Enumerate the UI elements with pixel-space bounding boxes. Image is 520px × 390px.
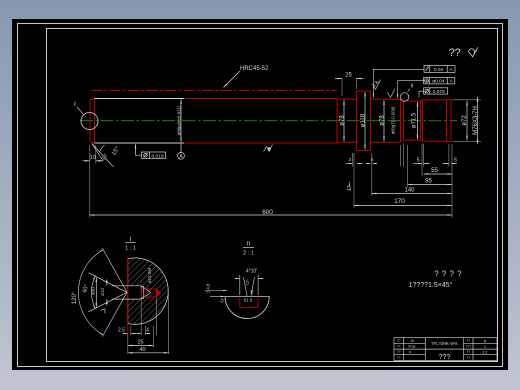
collar phi118 bbox=[356, 91, 358, 151]
right end face bbox=[450, 100, 452, 142]
dimension phi72 bbox=[466, 101, 468, 141]
datum A symbol bbox=[180, 143, 182, 153]
groove red profile bbox=[240, 296, 258, 307]
end face red line bbox=[127, 258, 129, 335]
svg-text:??: ?? bbox=[466, 339, 470, 343]
step at x=337 bbox=[336, 99, 338, 144]
roughness symbol below shaft bbox=[264, 145, 273, 152]
dimension phi118 collar bbox=[364, 92, 366, 150]
dimension extension lines (gray) bbox=[90, 78, 481, 218]
svg-text:170: 170 bbox=[394, 198, 405, 205]
svg-text:ø78: ø78 bbox=[380, 115, 386, 126]
phi71.5 section bbox=[404, 100, 423, 102]
dimension 600 bbox=[90, 214, 452, 216]
tolerance frame 3: 0.079 bbox=[424, 88, 448, 94]
svg-text:??: ?? bbox=[466, 356, 470, 360]
dimension 10 at left end bbox=[83, 160, 103, 162]
detail callout circle I bbox=[81, 113, 98, 130]
detail I lower extension lines bbox=[128, 294, 169, 354]
svg-text:??: ?? bbox=[466, 350, 470, 354]
svg-text:2.5: 2.5 bbox=[118, 328, 125, 334]
svg-text:40: 40 bbox=[139, 347, 145, 353]
svg-text:61.5: 61.5 bbox=[244, 298, 253, 303]
60 degree dimension arc bbox=[91, 276, 95, 310]
svg-text:4°10': 4°10' bbox=[246, 269, 257, 275]
svg-text:5: 5 bbox=[417, 157, 420, 163]
black hole interior cut bbox=[128, 286, 141, 299]
dimension 5 at groove bbox=[413, 163, 430, 165]
svg-text:ø71.5: ø71.5 bbox=[412, 112, 418, 128]
svg-text:?b: ?b bbox=[410, 339, 414, 343]
svg-text:0.04: 0.04 bbox=[434, 67, 444, 73]
inner border frame bbox=[47, 29, 498, 362]
svg-text:II: II bbox=[247, 242, 251, 248]
svg-text:N-av: N-av bbox=[408, 345, 415, 349]
svg-text:??: ?? bbox=[397, 350, 401, 354]
svg-text:140: 140 bbox=[404, 188, 415, 194]
green centerline of shaft axis bbox=[80, 120, 457, 122]
title block small labels bbox=[397, 339, 488, 360]
svg-text:I: I bbox=[74, 101, 76, 108]
svg-text:0.079: 0.079 bbox=[433, 89, 445, 95]
svg-text:1:2: 1:2 bbox=[483, 350, 488, 354]
center hole bore outline bbox=[112, 286, 151, 299]
shaft body edges white left portion bbox=[95, 99, 185, 144]
red dots on centerline bbox=[190, 120, 439, 122]
svg-text:M76X3-7H: M76X3-7H bbox=[473, 106, 479, 135]
thread section bbox=[423, 99, 452, 101]
dimension 55 bbox=[424, 173, 453, 175]
svg-text:25: 25 bbox=[345, 73, 352, 79]
svg-text:???: ??? bbox=[465, 345, 471, 349]
svg-text:25: 25 bbox=[137, 340, 143, 346]
svg-text:600: 600 bbox=[262, 209, 273, 216]
top-right surface finish symbol bbox=[469, 47, 478, 57]
svg-text:1????1.5×45°: 1????1.5×45° bbox=[409, 281, 453, 289]
tolerance frame 2: concentricity phi0.04 A bbox=[424, 78, 455, 84]
svg-text:10: 10 bbox=[90, 155, 96, 161]
small dims near collar bottom bbox=[346, 163, 378, 165]
roughness symbol on phi80g7 section bbox=[388, 89, 396, 98]
svg-text:ø80js6(±0.011): ø80js6(±0.011) bbox=[177, 105, 182, 135]
svg-text:1: 1 bbox=[484, 345, 486, 349]
svg-text:ø118: ø118 bbox=[361, 113, 367, 127]
svg-text:ø30: ø30 bbox=[90, 287, 95, 295]
leader to third frame bbox=[419, 91, 424, 97]
120 degree dimension arc bbox=[78, 250, 103, 336]
svg-text:2.4.8: 2.4.8 bbox=[206, 283, 211, 293]
undercut groove before thread bbox=[420, 101, 422, 140]
dimension 140 bbox=[372, 193, 452, 195]
dimension M76X3-7H bbox=[477, 97, 479, 144]
svg-text:??: ?? bbox=[397, 356, 401, 360]
red hardening dash-dot line above shaft bbox=[91, 90, 337, 92]
groove angle construction bbox=[235, 275, 264, 296]
leader to concentricity frame bbox=[398, 81, 424, 98]
svg-text:ø13: ø13 bbox=[100, 288, 105, 296]
phi78 right section bbox=[371, 98, 401, 100]
dimension phi13 bbox=[106, 280, 108, 306]
svg-text:I: I bbox=[130, 236, 132, 243]
dimension phi78 left bbox=[343, 100, 345, 141]
svg-text:55: 55 bbox=[431, 168, 438, 174]
phi78 left section bbox=[337, 98, 357, 100]
svg-text:?FL?3HK-W%: ?FL?3HK-W% bbox=[431, 341, 458, 346]
svg-text:4: 4 bbox=[146, 328, 149, 334]
cylindricity tolerance frame 0.019 bbox=[136, 144, 166, 158]
svg-text:????: ???? bbox=[434, 270, 465, 279]
svg-text:??: ?? bbox=[397, 345, 401, 349]
shaft body edges red portion bbox=[184, 91, 451, 151]
svg-text:5: 5 bbox=[454, 157, 457, 163]
svg-text:0.019: 0.019 bbox=[151, 153, 163, 159]
dimension 25 bbox=[128, 345, 154, 347]
shaft left end face bbox=[90, 99, 95, 144]
dimension 40 bbox=[128, 352, 169, 354]
15 degree chamfer construction at left end bbox=[92, 144, 114, 168]
dimension 5 at thread end bbox=[442, 163, 457, 165]
svg-text:HRC45-52: HRC45-52 bbox=[240, 66, 269, 72]
groove bbox=[400, 99, 402, 142]
dimension 2.5 bbox=[123, 333, 137, 335]
dimension 4 bbox=[137, 333, 151, 335]
svg-text:1 : 1: 1 : 1 bbox=[125, 246, 136, 252]
svg-text:a: a bbox=[409, 350, 411, 354]
tolerance frame 1: runout 0.04 A bbox=[424, 66, 455, 73]
svg-text:2 : 1: 2 : 1 bbox=[243, 251, 254, 257]
svg-text:ø78: ø78 bbox=[340, 115, 346, 126]
svg-text:II: II bbox=[411, 84, 414, 90]
roughness mark in detail I bbox=[100, 307, 107, 313]
detail callout circle II on undercut bbox=[400, 93, 409, 102]
dimension phi78 right bbox=[383, 100, 385, 141]
left leaders of detail II bbox=[205, 291, 227, 297]
svg-text:120°: 120° bbox=[72, 291, 78, 304]
cone construction fan lines bbox=[78, 248, 127, 337]
roughness symbol below collar bbox=[344, 182, 354, 192]
svg-text:???: ??? bbox=[439, 354, 451, 361]
leader to runout frame bbox=[373, 69, 424, 97]
roughness symbol above shaft left of collar bbox=[373, 80, 381, 90]
dimension phi30 bbox=[95, 278, 97, 308]
detail II boundary arc bbox=[225, 296, 269, 318]
pilot hole red outline bbox=[141, 289, 161, 297]
svg-text:??: ?? bbox=[449, 47, 461, 59]
dimension 170 bbox=[354, 205, 452, 207]
svg-text:ø80g7(−0.009): ø80g7(−0.009) bbox=[391, 106, 396, 134]
dimension 85 bbox=[408, 184, 452, 186]
svg-text:ø0.04: ø0.04 bbox=[432, 79, 445, 85]
dimension phi71.5 bbox=[417, 102, 419, 139]
dimension 25 above collar bbox=[335, 78, 364, 80]
svg-text:??: ?? bbox=[397, 339, 401, 343]
hatched shaft end section bbox=[128, 258, 168, 324]
dimension phi80js6 with datum A bbox=[180, 100, 182, 143]
svg-text:85: 85 bbox=[425, 179, 432, 185]
svg-text:ø12.5M: ø12.5M bbox=[147, 268, 152, 284]
svg-text:ø72: ø72 bbox=[462, 115, 468, 126]
